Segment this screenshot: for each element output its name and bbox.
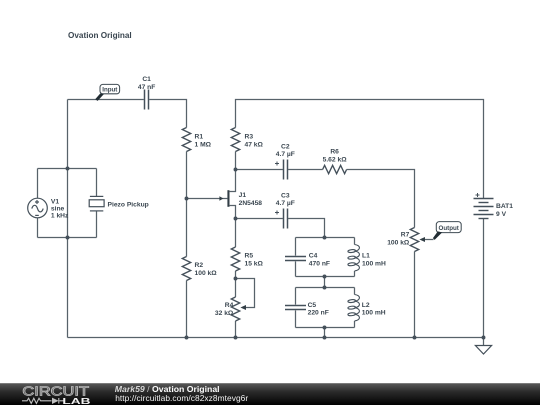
potentiometer R4 wiper arrowhead: [240, 305, 246, 310]
wire J1 source to R5 top: [230, 206, 236, 248]
capacitor C1: [145, 90, 149, 110]
wire V1 branch bottom: [37, 218, 39, 238]
wire tank2 right L2 leads: [354, 288, 356, 328]
logo LAB: [62, 397, 90, 405]
resistor R2: [182, 257, 190, 281]
wire R3 bottom to J1 drain: [230, 152, 236, 192]
footer bar: [0, 383, 540, 405]
wire top-left run from left rail to C1: [68, 99, 144, 101]
capacitor C4: [285, 257, 306, 261]
wire R5 bottom to R4 top: [235, 271, 237, 297]
wire R7 bottom to bottom rail: [414, 252, 416, 338]
wire tank1 left C4 leads: [295, 238, 297, 277]
wire C3 node run: [236, 218, 283, 220]
wire R2 bottom to bottom rail: [186, 281, 188, 338]
potentiometer R7 wiper arrowhead: [419, 237, 425, 242]
wire tank1 top: [296, 237, 355, 239]
wire tank1 right L1 leads: [354, 238, 356, 277]
source V1: [28, 198, 48, 218]
wire V1 branch top: [37, 169, 39, 199]
piezo pickup: [89, 196, 104, 211]
battery plus sign: [476, 193, 480, 197]
wire left rail: [67, 100, 69, 338]
logo CIRCUIT: [22, 385, 89, 399]
potentiometer R7 body: [410, 228, 418, 252]
transistor J1 gate arrowhead: [219, 196, 223, 200]
svg-text:http://circuitlab.com/c82xz8mt: http://circuitlab.com/c82xz8mtevg6r: [115, 393, 248, 403]
inductor L2: [348, 295, 360, 321]
capacitor C2: [284, 160, 288, 180]
wire R1 bottom to R2 top (gate rail): [186, 152, 188, 257]
wire C2 to R6: [288, 169, 323, 171]
wire tank1 bottom: [296, 276, 355, 278]
svg-text:LAB: LAB: [62, 397, 90, 405]
resistor R5: [231, 247, 239, 271]
logo squiggle and diode: [22, 398, 64, 404]
capacitor C3 plus sign: [275, 211, 279, 215]
potentiometer R4 body: [231, 297, 239, 321]
wire V1/piezo bottom connector: [38, 237, 97, 239]
wire tank2 left C5 leads: [295, 288, 297, 328]
ground: [475, 346, 491, 355]
wire top-right run R3 to battery: [236, 100, 484, 199]
capacitor C3: [284, 209, 288, 229]
resistor R1: [182, 128, 190, 152]
wire R4 bottom to bottom rail: [235, 321, 237, 338]
resistor R6: [323, 165, 347, 173]
wire tank1 to tank2 feed: [324, 277, 326, 288]
wire piezo branch bottom: [96, 211, 98, 238]
wire V1/piezo top connector: [38, 168, 97, 170]
resistor R3: [231, 128, 239, 152]
wire battery bottom to ground: [483, 219, 485, 346]
transistor J1 bar: [227, 190, 229, 207]
wire tank2 bottom: [296, 327, 355, 329]
battery BAT1: [474, 199, 494, 219]
wire R6 to R7 top: [347, 170, 415, 228]
wire R7 wiper to output: [425, 239, 434, 241]
wire bottom rail: [68, 337, 484, 339]
wire piezo branch top: [96, 169, 98, 197]
wire tank2 top: [296, 287, 355, 289]
node flag Output: [433, 222, 461, 240]
capacitor C2 plus sign: [275, 162, 279, 166]
capacitor C5: [285, 306, 306, 310]
wire C1 to R1 corner: [149, 100, 186, 128]
wire C2 node run: [236, 169, 283, 171]
node flag Input: [95, 84, 119, 101]
inductor L1: [348, 245, 360, 271]
wire tank2 to bottom rail: [324, 328, 326, 338]
wire R4 wiper loop: [236, 279, 255, 308]
wire C3 to tank1: [288, 219, 324, 238]
wire gate from R1/R2 node to J1: [187, 198, 228, 200]
node junction dots: [66, 167, 486, 340]
